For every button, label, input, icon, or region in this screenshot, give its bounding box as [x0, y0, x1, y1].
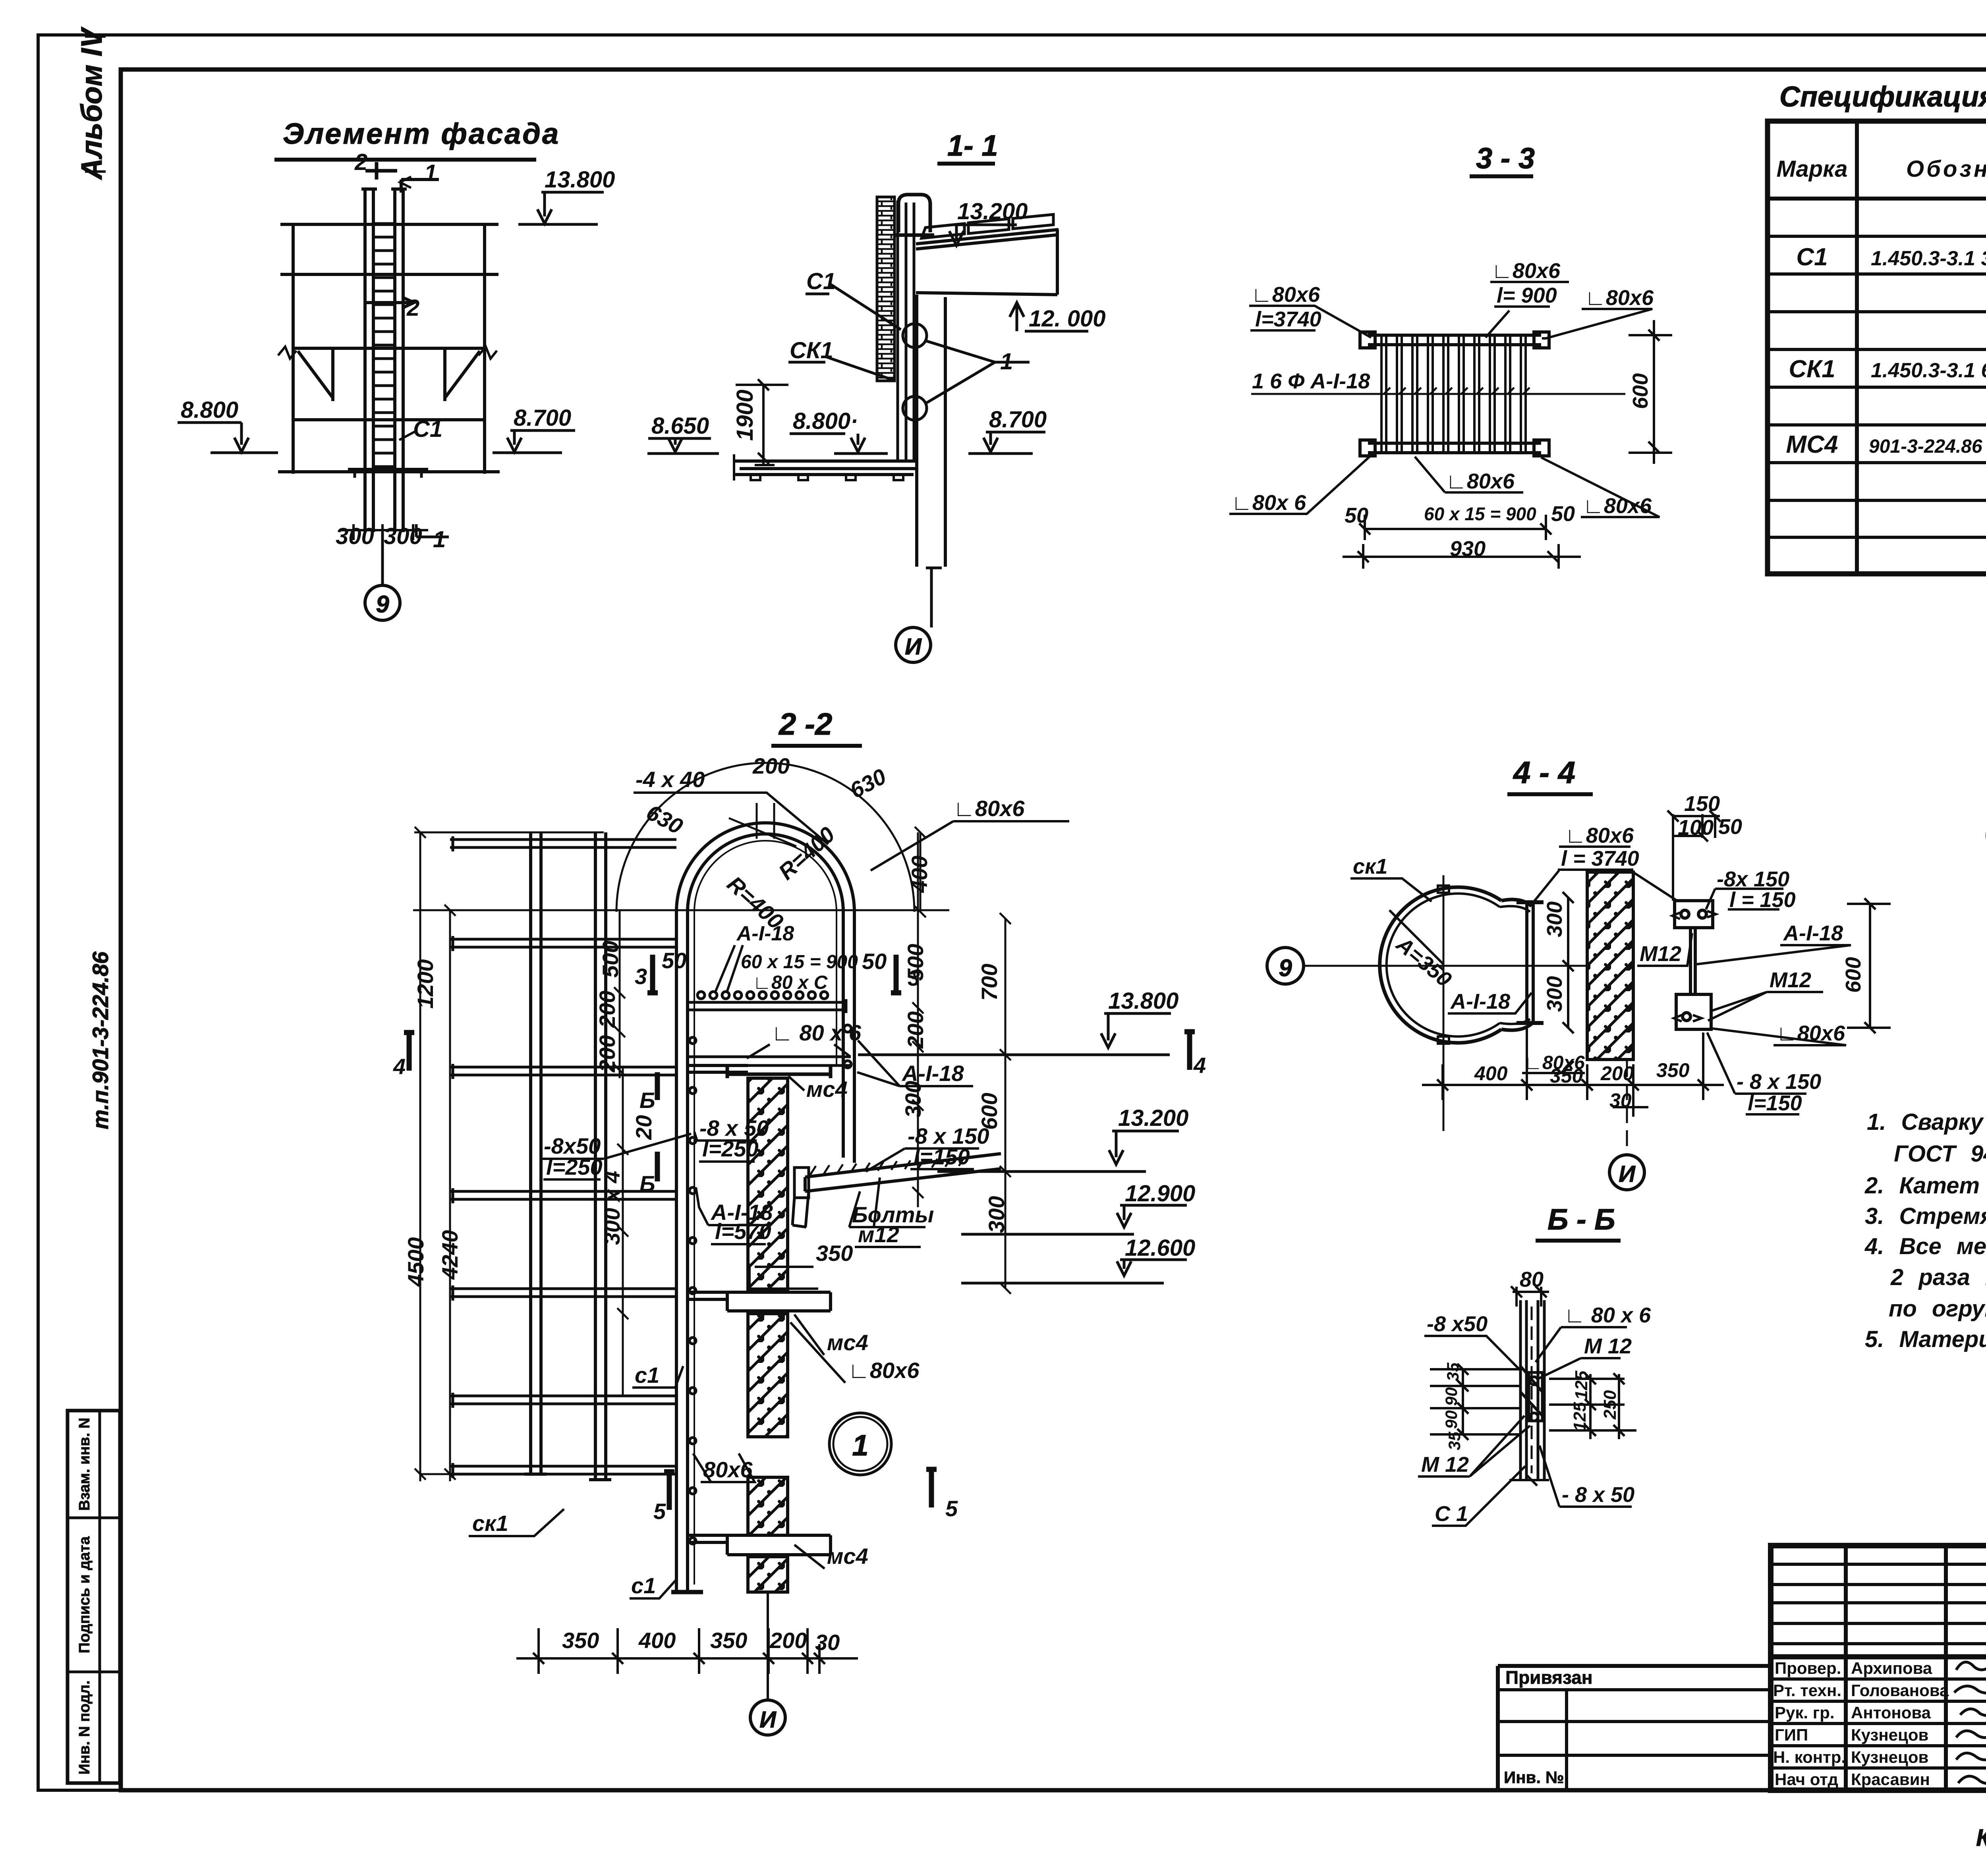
svg-text:13.200: 13.200: [1118, 1105, 1188, 1131]
svg-text:Марка: Марка: [1776, 156, 1847, 182]
svg-text:600: 600: [1629, 373, 1652, 409]
svg-text:Инв. N подл.: Инв. N подл.: [76, 1680, 93, 1774]
svg-text:с1: с1: [635, 1363, 659, 1388]
svg-text:∟80x6: ∟80x6: [1565, 824, 1634, 847]
svg-text:Б: Б: [639, 1088, 655, 1113]
svg-text:50: 50: [862, 949, 887, 974]
svg-text:1: 1: [424, 160, 437, 186]
svg-text:Н. контр.: Н. контр.: [1773, 1748, 1846, 1766]
svg-text:80x6: 80x6: [703, 1457, 753, 1482]
svg-text:1.450.3-3.1 3.1.0.1.0- 04: 1.450.3-3.1 3.1.0.1.0- 04: [1871, 247, 1986, 270]
svg-text:700: 700: [977, 964, 1002, 1001]
svg-text:13.200: 13.200: [957, 199, 1028, 224]
svg-text:М12: М12: [1770, 968, 1811, 992]
svg-text:Красавин: Красавин: [1851, 1770, 1930, 1789]
svg-text:300: 300: [984, 1196, 1009, 1233]
svg-text:8.800·: 8.800·: [793, 408, 858, 434]
svg-text:И: И: [759, 1707, 777, 1733]
svg-text:12.900: 12.900: [1125, 1181, 1195, 1206]
svg-text:1900: 1900: [732, 390, 758, 441]
svg-text:-4 x 40: -4 x 40: [636, 767, 705, 792]
svg-text:∟ 80 x 6: ∟ 80 x 6: [771, 1020, 862, 1045]
svg-text:А-I-18: А-I-18: [736, 922, 794, 945]
svg-text:∟80x6: ∟80x6: [848, 1358, 920, 1383]
svg-text:Рт. техн.: Рт. техн.: [1773, 1681, 1841, 1700]
svg-text:-8 x50: -8 x50: [1427, 1312, 1488, 1336]
svg-text:м12: м12: [858, 1222, 899, 1247]
svg-text:1: 1: [433, 527, 446, 552]
svg-text:4240: 4240: [437, 1230, 462, 1280]
svg-text:Взам. инв. N: Взам. инв. N: [76, 1418, 93, 1511]
svg-text:И: И: [905, 634, 922, 660]
svg-text:А=350: А=350: [1391, 932, 1456, 992]
svg-text:Подпись и дата: Подпись и дата: [76, 1536, 93, 1653]
svg-text:3. Стремянку с1 укоротить: 3. Стремянку с1 укоротить сверху на 100 …: [1865, 1203, 1986, 1229]
svg-text:400: 400: [638, 1628, 676, 1653]
svg-text:150: 150: [1684, 792, 1720, 816]
svg-text:8.700: 8.700: [514, 405, 571, 431]
svg-text:2 -2: 2 -2: [778, 706, 832, 741]
svg-text:Привязан: Привязан: [1505, 1667, 1593, 1688]
svg-text:С 1: С 1: [1435, 1502, 1468, 1526]
svg-text:9: 9: [1279, 955, 1292, 981]
svg-text:500: 500: [598, 941, 623, 978]
svg-text:50: 50: [662, 948, 686, 973]
svg-text:1200: 1200: [413, 959, 438, 1009]
svg-text:∟80x6: ∟80x6: [1446, 469, 1515, 493]
svg-text:200: 200: [769, 1628, 807, 1653]
svg-text:200: 200: [595, 991, 620, 1028]
svg-text:И: И: [1619, 1161, 1636, 1187]
svg-text:4: 4: [393, 1054, 406, 1079]
svg-text:350: 350: [816, 1241, 853, 1266]
svg-text:1. Сварку производить эле: 1. Сварку производить электродами Э42: [1867, 1109, 1986, 1135]
svg-text:2. Катет сварного шва = 6мм: 2. Катет сварного шва = 6мм: [1864, 1173, 1986, 1199]
svg-text:Б: Б: [639, 1171, 655, 1196]
svg-text:1: 1: [852, 1429, 868, 1462]
svg-text:200: 200: [903, 1011, 928, 1049]
svg-text:350: 350: [710, 1628, 747, 1653]
svg-text:12. 000: 12. 000: [1029, 306, 1106, 332]
svg-text:5: 5: [945, 1496, 958, 1521]
svg-text:Кузнецов: Кузнецов: [1851, 1748, 1928, 1766]
svg-text:∟80 x С: ∟80 x С: [753, 972, 828, 993]
svg-text:90: 90: [1442, 1410, 1461, 1429]
svg-text:300: 300: [1543, 901, 1567, 937]
svg-text:1.450.3-3.1 6.1.0.1.0- 05: 1.450.3-3.1 6.1.0.1.0- 05: [1871, 359, 1986, 382]
svg-text:ск1: ск1: [1353, 855, 1387, 878]
svg-text:3 - 3: 3 - 3: [1476, 142, 1535, 175]
svg-text:А-I-18: А-I-18: [1783, 921, 1843, 945]
svg-text:300: 300: [336, 523, 374, 549]
svg-text:4500: 4500: [403, 1237, 428, 1287]
svg-text:по огрунтовке.: по огрунтовке.: [1889, 1296, 1986, 1322]
svg-text:630: 630: [642, 799, 687, 839]
svg-text:Спецификация элементов пож: Спецификация элементов пожарной лестницы: [1779, 81, 1986, 113]
svg-text:400: 400: [1474, 1062, 1508, 1085]
svg-text:300: 300: [1543, 976, 1567, 1012]
svg-text:8.700: 8.700: [989, 407, 1047, 432]
svg-text:50: 50: [1718, 815, 1742, 839]
svg-text:50: 50: [1551, 502, 1575, 526]
svg-text:350: 350: [562, 1628, 599, 1653]
svg-text:Нач отд: Нач отд: [1775, 1770, 1838, 1789]
svg-text:12.600: 12.600: [1125, 1235, 1195, 1261]
svg-text:Кузнецов: Кузнецов: [1851, 1725, 1928, 1744]
svg-text:М 12: М 12: [1584, 1334, 1632, 1358]
svg-text:ГОСТ 9467- 75.: ГОСТ 9467- 75.: [1894, 1141, 1986, 1167]
svg-text:А-I-18: А-I-18: [901, 1061, 964, 1086]
svg-text:3: 3: [635, 964, 647, 989]
svg-text:8.650: 8.650: [651, 413, 709, 439]
svg-text:∟80x6: ∟80x6: [1585, 286, 1654, 310]
svg-text:9: 9: [376, 591, 389, 618]
svg-text:4. Все металлоконструкции ок: 4. Все металлоконструкции окрасить за: [1864, 1233, 1986, 1259]
svg-text:13.800: 13.800: [1108, 988, 1178, 1014]
svg-text:5: 5: [653, 1499, 666, 1524]
svg-text:Инв. №: Инв. №: [1504, 1768, 1564, 1787]
svg-text:Архипова: Архипова: [1851, 1659, 1932, 1677]
svg-text:60 x 15 = 900: 60 x 15 = 900: [741, 952, 858, 973]
svg-text:Обозначение: Обозначение: [1906, 156, 1986, 182]
svg-text:ск1: ск1: [472, 1511, 508, 1536]
svg-text:Элемент фасада: Элемент фасада: [283, 117, 560, 150]
svg-text:1- 1: 1- 1: [947, 129, 998, 162]
svg-text:300 x 4: 300 x 4: [599, 1171, 624, 1245]
svg-text:мс4: мс4: [806, 1077, 848, 1102]
svg-text:С1: С1: [806, 268, 836, 294]
svg-text:200: 200: [752, 753, 790, 778]
svg-text:350: 350: [1656, 1059, 1690, 1081]
svg-text:20: 20: [631, 1115, 656, 1140]
svg-text:l= 900: l= 900: [1497, 284, 1557, 307]
svg-text:630: 630: [846, 764, 890, 803]
svg-text:901-3-224.86 - КЖИ.00.08.0: 901-3-224.86 - КЖИ.00.08.0: [1869, 436, 1986, 457]
svg-text:Б - Б: Б - Б: [1547, 1203, 1615, 1236]
svg-text:- 8 x 150: - 8 x 150: [1737, 1070, 1821, 1094]
svg-text:125: 125: [1572, 1370, 1591, 1400]
svg-text:600: 600: [1841, 957, 1865, 993]
svg-text:l=570: l=570: [715, 1219, 771, 1244]
svg-text:А-I-18: А-I-18: [1450, 990, 1510, 1013]
svg-text:с1: с1: [631, 1573, 656, 1598]
svg-text:8.800: 8.800: [181, 397, 238, 423]
svg-text:200: 200: [595, 1035, 620, 1073]
svg-text:Голованова: Голованова: [1851, 1681, 1949, 1700]
svg-text:СК1: СК1: [790, 338, 833, 363]
svg-text:мс4: мс4: [827, 1330, 868, 1355]
svg-text:М 12: М 12: [1421, 1453, 1469, 1476]
svg-text:∟80x6: ∟80x6: [1583, 494, 1652, 518]
svg-text:5. Материал металлоконструк: 5. Материал металлоконструкций - Вст 3кп…: [1865, 1326, 1986, 1352]
svg-text:мс4: мс4: [827, 1544, 868, 1569]
svg-text:С1: С1: [413, 416, 442, 442]
svg-text:60 x 15 = 900: 60 x 15 = 900: [1424, 504, 1536, 524]
svg-text:С1: С1: [1796, 243, 1828, 271]
svg-text:l=3740: l=3740: [1255, 307, 1321, 331]
svg-text:Альбом IV: Альбом IV: [75, 27, 108, 180]
svg-text:1 6 Ф А-I-18: 1 6 Ф А-I-18: [1252, 369, 1370, 393]
svg-text:400: 400: [907, 856, 932, 893]
svg-text:∟80x6: ∟80x6: [953, 796, 1025, 821]
svg-text:- 8 x 50: - 8 x 50: [1562, 1483, 1634, 1507]
svg-text:М12: М12: [1640, 942, 1681, 966]
svg-text:2 раза масляной краской: 2 раза масляной краской (гост 8292 - 75): [1890, 1264, 1986, 1290]
svg-text:4: 4: [1193, 1053, 1206, 1078]
svg-text:500: 500: [903, 944, 928, 981]
svg-text:МС4: МС4: [1786, 431, 1838, 458]
svg-text:Рук. гр.: Рук. гр.: [1775, 1703, 1835, 1722]
svg-text:4 - 4: 4 - 4: [1513, 755, 1575, 790]
svg-text:∟80x6: ∟80x6: [1251, 283, 1320, 307]
svg-text:∟ 80 x 6: ∟ 80 x 6: [1564, 1303, 1651, 1327]
svg-text:ГИП: ГИП: [1775, 1725, 1808, 1744]
svg-text:13.800: 13.800: [545, 167, 615, 193]
svg-text:∟80x 6: ∟80x 6: [1231, 491, 1306, 515]
svg-text:СК1: СК1: [1789, 355, 1835, 383]
svg-text:Провер.: Провер.: [1775, 1659, 1841, 1677]
svg-text:∟80x6: ∟80x6: [1491, 259, 1561, 283]
svg-text:т.п.901-3-224.86: т.п.901-3-224.86: [88, 951, 113, 1129]
svg-text:Копировал Родлевская: Копировал Родлевская: [1976, 1824, 1986, 1851]
svg-text:Антонова: Антонова: [1851, 1703, 1931, 1722]
svg-text:l = 3740: l = 3740: [1561, 847, 1639, 870]
